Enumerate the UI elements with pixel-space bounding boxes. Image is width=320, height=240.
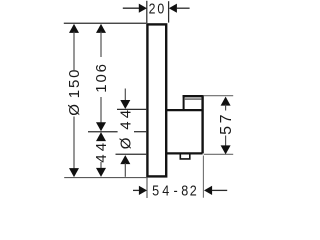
dim57 bottom extension line: [204, 153, 233, 155]
handle right edge: [201, 95, 203, 153]
dia44 top arrow (outside, pointing down): [120, 100, 130, 109]
dia150 top arrow: [69, 24, 79, 33]
dim 54-82 right arrow: [204, 186, 212, 195]
dim44 stem lower: [100, 162, 102, 170]
dimension 20 line left tail: [123, 7, 140, 9]
dia150 stem lower: [73, 117, 75, 170]
svg-text:2: 2: [190, 183, 197, 199]
handle bottom level extension line (left of plate): [116, 153, 147, 155]
svg-text:150: 150: [66, 68, 83, 98]
handle cap left edge: [183, 95, 185, 110]
dim57 top arrow: [221, 97, 231, 106]
svg-text:44: 44: [93, 140, 110, 163]
svg-text:4: 4: [162, 183, 169, 199]
dia150 stem upper: [73, 32, 75, 71]
wall plate (side view, thick rectangle): [147, 24, 166, 176]
dim57 bottom arrow: [221, 145, 231, 154]
dia106 stem upper: [100, 32, 102, 58]
handle cap inner line: [185, 98, 202, 100]
dia106 bottom arrow: [96, 122, 106, 131]
dia150 bottom arrow: [69, 168, 79, 177]
dia106 bottom tick right segment: [134, 131, 146, 133]
dia106 top arrow: [96, 24, 106, 33]
handle cap top edge: [183, 95, 203, 97]
svg-text:Ø: Ø: [66, 104, 83, 116]
dim 54-82 right tail: [212, 189, 227, 191]
svg-text:44: 44: [118, 107, 135, 130]
handle bottom nub: [180, 154, 190, 159]
handle top level extension line (left of plate): [117, 108, 146, 110]
svg-text:106: 106: [93, 62, 110, 92]
svg-text:20: 20: [149, 1, 166, 17]
svg-text:8: 8: [181, 183, 188, 199]
dim 54-82 left tail: [133, 189, 140, 191]
svg-text:57: 57: [218, 112, 235, 135]
svg-text:5: 5: [152, 183, 159, 199]
dia44 stem below: [124, 163, 126, 177]
svg-text:Ø: Ø: [118, 137, 135, 149]
dimension 20 right arrow: [169, 4, 177, 13]
dim44 top arrow: [96, 132, 106, 141]
dim57 top extension line: [204, 95, 233, 97]
top extension line (plate top, left): [64, 22, 146, 24]
dimension 20 left arrow: [139, 4, 147, 13]
vertical extension line from handle front: [202, 156, 204, 198]
dim44 bottom arrow: [96, 168, 106, 177]
bottom extension line (plate bottom, left): [64, 177, 146, 179]
plate-left vertical extension (above plate): [146, 1, 148, 23]
dia106 stem lower: [100, 97, 102, 124]
dia44 stem above: [124, 89, 126, 102]
plate-left vertical extension (below plate): [146, 178, 148, 198]
dim57 stem lower: [225, 136, 227, 148]
right extension line of 20 dim: [168, 1, 170, 22]
dim57 stem upper: [225, 105, 227, 111]
handle body bottom edge: [166, 152, 203, 154]
dia106 bottom tick left segment: [88, 131, 118, 133]
dim 54-82 left arrow: [139, 186, 147, 195]
svg-text:-: -: [174, 183, 178, 199]
handle body top edge: [166, 109, 203, 111]
dimension 20 right tail: [177, 7, 190, 9]
dia44 bottom arrow (outside, pointing up): [120, 155, 130, 164]
